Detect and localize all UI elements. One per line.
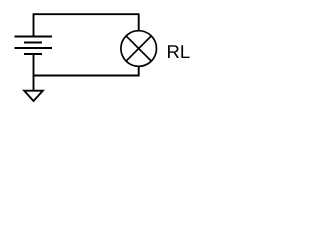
battery B1 plate short upper bbox=[24, 42, 42, 44]
label RL bbox=[168, 45, 190, 58]
lamp RL circle bbox=[121, 31, 157, 67]
battery B1 plate long lower bbox=[15, 47, 53, 49]
battery B1 plate long top bbox=[15, 36, 53, 38]
wire battery negative down to ground bbox=[33, 54, 35, 90]
wire top from battery positive to lamp top bbox=[34, 14, 139, 36]
battery B1 plate short bottom bbox=[24, 53, 42, 55]
ground symbol triangle bbox=[24, 91, 43, 101]
lamp RL cross diagonal 2 bbox=[126, 36, 151, 61]
lamp RL cross diagonal 1 bbox=[126, 36, 151, 61]
wire bottom from lamp to ground node bbox=[34, 67, 139, 76]
